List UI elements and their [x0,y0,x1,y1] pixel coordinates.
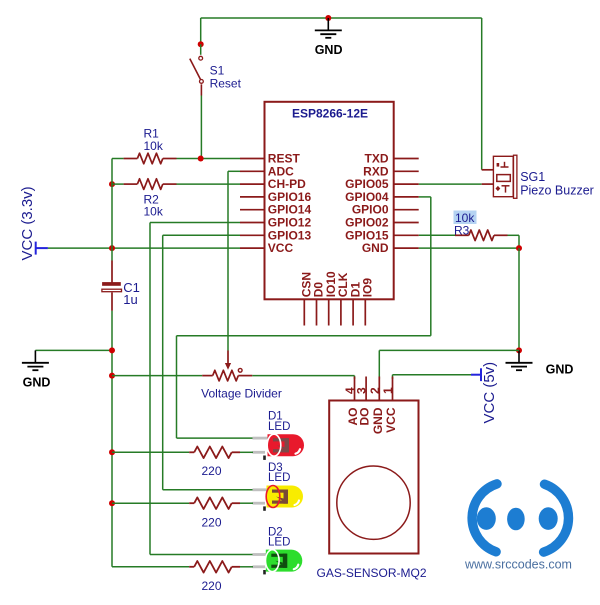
junction D3 res [109,500,115,506]
wire VCC5 to sensor pin1 [393,375,472,379]
label D2 LED [268,537,290,549]
resistor 220 (D3) [189,497,240,509]
power VCC (3.3v) symbol [36,242,48,255]
svg-text:DO: DO [358,408,372,426]
label D3 LED [268,472,290,484]
resistor R3 [455,230,508,241]
label 220 D3 [201,516,221,530]
power VCC (5v) symbol [471,368,481,381]
wire left rail upper [111,159,113,249]
label 220 D2 [201,579,221,593]
svg-text:GND: GND [371,407,385,434]
wire rail to C1 [111,248,113,283]
svg-text:SG1: SG1 [520,170,545,184]
svg-text:GND: GND [362,241,389,255]
svg-text:2: 2 [368,387,382,394]
resistor R1 [124,153,177,164]
svg-text:3: 3 [355,387,369,394]
logo srccodes [472,484,568,552]
svg-text:Piezo Buzzer: Piezo Buzzer [520,184,594,198]
capacitor C1 [102,282,122,311]
buzzer SG1 [482,155,517,198]
wire GPIO04 to D1 [177,197,431,438]
labels sensor pin numbers [343,387,395,394]
labels chip right pins [345,152,389,256]
svg-text:220: 220 [201,579,221,593]
wire R-D2 to LED [240,566,253,568]
label R1 10k [144,139,164,153]
wire R1 to REST pin [177,158,241,160]
junction REST node [198,156,204,162]
resistor 220 (D2) [189,561,240,573]
label C1 1u [123,292,137,307]
labels chip bottom pins [300,271,375,297]
wire rail to R-D2 [112,566,189,568]
wire switch to REST [200,96,202,159]
svg-text:220: 220 [201,464,221,478]
wire GPIO13 to D3 [163,235,253,489]
label R2 10k [144,205,164,219]
IC U1 ESP8266-12E [240,102,419,326]
svg-text:Voltage Divider: Voltage Divider [201,387,282,401]
wire VCC rail to R1 [112,158,124,160]
wire R3 to GND net [508,235,520,248]
wire GPIO15 to R3 [419,234,455,236]
junction VCC rail [109,245,115,251]
wire right rail [518,248,520,350]
LED D3 [253,486,304,511]
svg-text:LED: LED [268,537,290,549]
gas sensor GAS-SENSOR-MQ2 [329,377,418,554]
label Reset [210,77,242,91]
wire chip GND to rail [419,247,519,249]
label R3 [454,223,470,237]
LED D1 [253,434,305,460]
wire rail below C1 [111,311,113,567]
svg-text:1u: 1u [123,292,137,307]
label 220 D1 [201,464,221,478]
label ESP8266-12E [292,107,368,121]
wire ADC to divider [228,171,240,350]
ground GND right [506,350,574,376]
wire top GND net horizontal [201,17,482,19]
label VCC (5v) [481,362,498,424]
svg-text:LED: LED [268,472,290,484]
wire rail to divider [112,375,202,377]
svg-text:GND: GND [23,376,51,390]
label SG1 [520,170,545,184]
labels sensor pins [346,407,398,434]
label S1 [210,64,225,78]
wire switch to top rail [200,18,202,44]
svg-text:GND: GND [315,43,343,57]
label R3 10k highlighted [454,211,477,225]
svg-text:VCC (3.3v): VCC (3.3v) [19,186,36,260]
label C1 [123,280,140,295]
svg-text:www.srccodes.com: www.srccodes.com [464,558,572,572]
junction R2 left [109,181,115,187]
svg-text:VCC: VCC [384,407,398,433]
svg-text:R3: R3 [454,223,470,237]
junction D1 res [109,449,115,455]
junction divider row [109,373,115,379]
label R1 [144,127,160,141]
junction switch top [198,41,204,47]
svg-text:S1: S1 [210,64,225,78]
wire rail to R-D1 [112,451,189,453]
junction top GND [325,15,331,21]
svg-text:LED: LED [268,421,290,433]
LED D2 [253,550,303,575]
label D1 LED [268,421,290,433]
resistor 220 (D1) [189,447,240,459]
label R2 [144,193,160,207]
svg-text:10k: 10k [144,205,164,219]
wire R-D1 to LED [240,451,253,453]
junction GND-left [109,347,115,353]
wire GPIO05 to buzzer [419,183,482,185]
label www.srccodes.com [464,558,572,572]
label D1 [268,411,283,423]
potentiometer Voltage Divider [202,351,252,381]
label GAS-SENSOR-MQ2 [316,566,426,580]
svg-text:VCC: VCC [268,241,294,255]
svg-text:ESP8266-12E: ESP8266-12E [292,107,368,121]
svg-text:GND: GND [546,363,574,377]
wire GND-left to rail [35,349,112,351]
svg-text:Reset: Reset [210,77,242,91]
labels chip left pins [268,152,312,256]
wire GPIO12 to D2 [150,223,253,555]
wire rail to R2 [112,183,124,185]
wire buzzer pin1 drop [481,18,483,170]
ground GND left [22,350,50,389]
label Piezo Buzzer [520,184,594,198]
junction GND right top [516,245,522,251]
svg-text:1: 1 [381,387,395,394]
label D2 [268,526,283,538]
wire VCC3.3 to chip VCC [48,247,240,249]
wire divider to AO pin4 [252,376,354,379]
wire R2 to CH-PD pin [177,183,241,185]
junction GND right [516,347,522,353]
wire rail to R-D3 [112,502,189,504]
wire R-D3 to LED [240,502,253,504]
label Voltage Divider [201,387,282,401]
svg-text:220: 220 [201,516,221,530]
ground GND top [315,18,343,57]
switch S1 [190,44,204,95]
label D3 [268,462,283,474]
svg-text:IO9: IO9 [361,278,375,298]
svg-text:VCC (5v): VCC (5v) [481,362,498,424]
label VCC (3.3v) [19,186,36,260]
resistor R2 [124,179,177,190]
wire sensor GND [379,350,519,379]
svg-text:GAS-SENSOR-MQ2: GAS-SENSOR-MQ2 [316,566,426,580]
svg-text:10k: 10k [144,139,164,153]
